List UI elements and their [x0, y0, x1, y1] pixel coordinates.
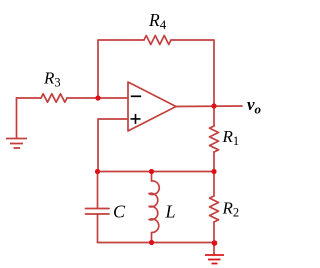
wire top rail right segment — [171, 40, 214, 106]
wire tank bottom rail — [98, 242, 215, 244]
wire R3 left lead — [17, 97, 42, 99]
op-amp minus sign — [131, 95, 141, 97]
node ground bottom junction — [212, 240, 218, 246]
wire R3 to op-amp minus input — [67, 97, 128, 99]
node output junction — [211, 103, 216, 108]
op-amp U1 — [128, 82, 176, 131]
ground right stem — [213, 243, 215, 255]
wire top rail left segment — [98, 40, 144, 98]
wire R1 to junction — [213, 152, 215, 172]
svg-text:L: L — [165, 202, 176, 222]
resistor R1 — [210, 126, 219, 152]
ground left stem — [16, 98, 18, 138]
resistor R2 — [210, 196, 219, 222]
node R3/feedback junction — [95, 95, 100, 100]
wire tank top rail — [98, 171, 215, 173]
inductor L — [149, 172, 159, 243]
wire capacitor top lead — [97, 172, 99, 209]
resistor R4 — [144, 36, 171, 45]
ground right symbol — [205, 255, 224, 264]
node tank top-left junction — [95, 169, 100, 174]
wire op-amp output — [176, 105, 242, 108]
capacitor C plates — [86, 209, 110, 215]
wire plus input — [98, 119, 128, 172]
node R1/R2 junction — [211, 169, 216, 174]
node inductor bottom junction — [149, 240, 154, 245]
wire R2 to bottom node — [213, 222, 215, 243]
ground left symbol — [6, 139, 27, 149]
wire R1/R2 junction to R2 — [213, 172, 215, 197]
wire capacitor bottom lead — [97, 214, 99, 243]
resistor R3 — [41, 94, 67, 102]
wire output to R1 — [213, 106, 215, 126]
node inductor top junction — [149, 169, 154, 174]
svg-text:C: C — [113, 202, 126, 222]
op-amp plus sign — [131, 114, 141, 124]
